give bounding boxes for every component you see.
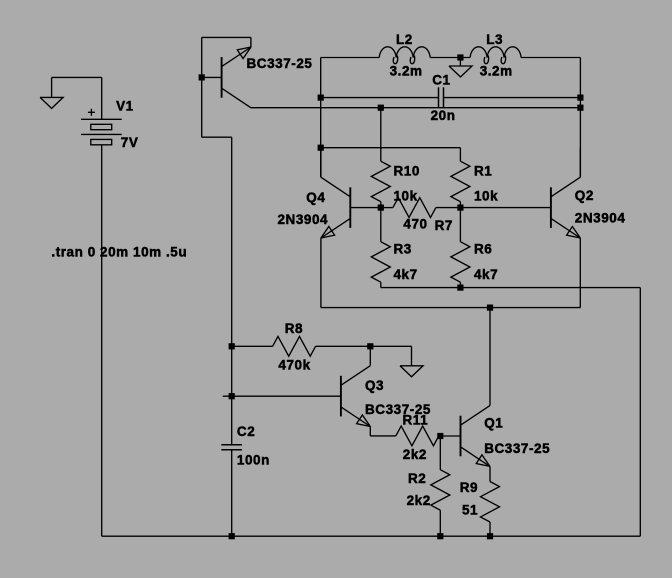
svg-text:R6: R6 [474, 242, 492, 257]
svg-text:2k2: 2k2 [407, 493, 431, 508]
svg-text:C1: C1 [432, 72, 450, 87]
svg-text:.tran 0 20m 10m .5u: .tran 0 20m 10m .5u [51, 244, 187, 259]
svg-text:L2: L2 [396, 32, 413, 47]
svg-text:2N3904: 2N3904 [278, 212, 329, 227]
svg-text:Q4: Q4 [306, 190, 325, 205]
svg-text:Q3: Q3 [365, 378, 384, 393]
svg-text:BC337-25: BC337-25 [247, 56, 313, 71]
svg-text:R1: R1 [474, 164, 492, 179]
svg-text:R3: R3 [394, 242, 412, 257]
svg-text:R2: R2 [408, 471, 426, 486]
svg-text:7V: 7V [121, 135, 139, 150]
svg-text:3.2m: 3.2m [390, 64, 423, 79]
svg-text:3.2m: 3.2m [480, 64, 513, 79]
svg-text:4k7: 4k7 [474, 267, 498, 282]
svg-text:Q2: Q2 [575, 188, 594, 203]
svg-text:4k7: 4k7 [394, 267, 418, 282]
svg-text:2k2: 2k2 [403, 447, 427, 462]
svg-text:51: 51 [462, 503, 478, 518]
svg-text:R7: R7 [435, 218, 453, 233]
svg-text:R10: R10 [394, 164, 420, 179]
svg-text:BC337-25: BC337-25 [484, 441, 550, 456]
svg-text:470: 470 [403, 217, 427, 232]
svg-text:R11: R11 [403, 412, 429, 427]
svg-text:10k: 10k [394, 188, 418, 203]
svg-text:20n: 20n [431, 108, 456, 123]
svg-text:100n: 100n [237, 453, 270, 468]
svg-text:10k: 10k [474, 188, 498, 203]
svg-text:V1: V1 [116, 99, 134, 114]
svg-text:R8: R8 [285, 321, 303, 336]
svg-text:2N3904: 2N3904 [575, 211, 626, 226]
svg-text:Q1: Q1 [484, 416, 503, 431]
svg-text:470k: 470k [278, 358, 310, 373]
svg-text:R9: R9 [460, 480, 478, 495]
svg-text:C2: C2 [237, 424, 255, 439]
svg-text:L3: L3 [486, 32, 503, 47]
